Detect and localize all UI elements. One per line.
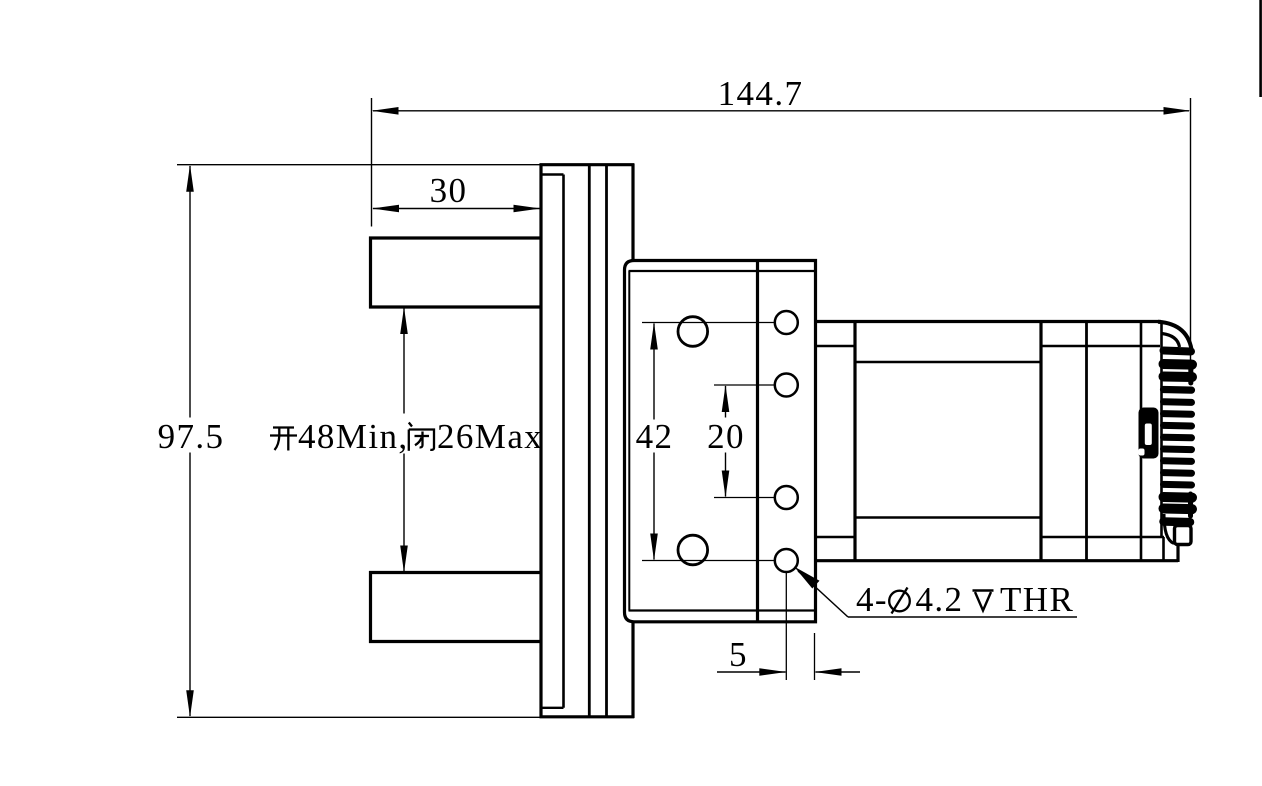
rear corner outer arc: [1158, 322, 1192, 353]
extension line hole center (5 dim): [785, 573, 787, 680]
svg-text:THR: THR: [1000, 580, 1074, 619]
heatsink fin 1: [1164, 351, 1192, 352]
dimension line 20 upper segment: [725, 386, 727, 418]
extension line bottom (for 97.5 dim): [177, 716, 541, 718]
motor body inner bottom line: [855, 516, 1041, 519]
arrowhead top of stroke dim: [400, 307, 408, 334]
fin right joint lower: [1188, 494, 1193, 516]
arrowhead right-pointing of 5 dim: [759, 668, 786, 676]
diameter symbol: [889, 588, 910, 614]
motor rear cap edge: [1085, 322, 1088, 561]
leader arrowhead: [794, 567, 820, 589]
lower jaw left edge: [369, 571, 372, 643]
construction line hole row 3: [714, 497, 775, 499]
bottom step curve: [1164, 514, 1174, 544]
lower jaw top edge: [369, 571, 541, 574]
small hole 2: [775, 374, 798, 397]
bottom step riser: [1176, 545, 1179, 563]
svg-text:42: 42: [636, 417, 674, 456]
dimension line 42 lower segment: [653, 453, 655, 560]
heatsink fin 2: [1164, 359, 1193, 370]
heatsink fin 9: [1164, 446, 1192, 454]
dimension line stroke 48/26 upper segment: [403, 308, 405, 414]
heatsink fin 3: [1164, 372, 1193, 383]
heatsink fin 15: [1164, 517, 1191, 526]
motor top edge: [816, 320, 1162, 323]
encoder housing edge: [1140, 322, 1143, 561]
connector notch: [1139, 449, 1145, 456]
heatsink fin 8: [1164, 434, 1192, 442]
heatsink fin 12: [1164, 481, 1192, 489]
svg-text:20: 20: [707, 417, 745, 456]
encoder housing right edge: [1160, 322, 1163, 538]
svg-text:30: 30: [430, 171, 468, 210]
arrowhead left of 144.7: [372, 107, 399, 115]
arrowhead bottom of 97.5: [186, 690, 194, 717]
rear tab: [1175, 526, 1192, 545]
finger plate notch bottom: [541, 707, 564, 709]
mounting bracket plate (white fill, rounded left corners): [625, 261, 816, 622]
extension line bracket edge (5 dim): [814, 633, 816, 680]
gripper body bottom edge: [540, 715, 635, 718]
heatsink fin 13: [1164, 492, 1193, 503]
svg-text:4.2: 4.2: [916, 580, 964, 619]
small hole 3: [775, 486, 798, 509]
svg-text:97.5: 97.5: [158, 417, 225, 456]
big hole lower: [678, 535, 708, 565]
motor hub bottom line: [816, 536, 856, 539]
gripper housing line 1: [588, 165, 591, 717]
heatsink fin 4: [1164, 386, 1192, 394]
lower jaw bottom edge: [369, 640, 541, 643]
arrowhead left-pointing of 5 dim: [815, 668, 842, 676]
gripper body top edge: [540, 163, 635, 166]
arrowhead top of 42: [650, 323, 658, 350]
small hole 4: [775, 549, 798, 572]
extension line top (for 97.5 dim): [177, 164, 541, 166]
svg-text:48Min,: 48Min,: [298, 417, 409, 456]
dimension line 97.5 lower segment: [189, 453, 191, 717]
construction line hole row 2: [714, 384, 775, 386]
bracket inner top line: [629, 270, 816, 272]
gripper housing right edge: [631, 164, 634, 719]
small hole 1: [775, 311, 798, 334]
motor body inner top line: [855, 361, 1041, 364]
finger plate notch top: [541, 173, 564, 175]
bottom step vertical: [1162, 537, 1165, 561]
dimension line 144.7: [373, 110, 1189, 112]
svg-text:144.7: 144.7: [718, 74, 804, 113]
hanzi KAI (open): [270, 428, 297, 451]
heatsink fin 5: [1164, 398, 1192, 406]
construction line hole row 4: [642, 560, 775, 562]
rear corner inner arc: [1162, 334, 1180, 348]
gripper housing line 3: [605, 165, 608, 717]
arrowhead left of 30: [372, 205, 399, 213]
motor rear cap line top: [1041, 345, 1160, 348]
finger plate right edge: [562, 175, 565, 708]
dimension line 30: [373, 208, 540, 210]
upper jaw left edge: [369, 237, 372, 309]
heatsink fin 6: [1164, 410, 1192, 418]
connector slot: [1145, 424, 1152, 446]
dimension line 20 lower segment: [725, 453, 727, 497]
motor bottom edge: [816, 559, 1179, 562]
finger plate left edge: [539, 164, 542, 719]
svg-text:5: 5: [729, 635, 748, 674]
arrowhead right of 30: [514, 205, 541, 213]
bracket inner left line: [628, 271, 630, 611]
svg-text:4-: 4-: [856, 580, 888, 619]
upper jaw bottom edge: [369, 305, 541, 308]
hanzi BI (closed): [409, 423, 434, 451]
arrowhead right of 144.7: [1164, 107, 1191, 115]
heatsink fin 7: [1164, 422, 1192, 430]
leader underline: [848, 616, 1077, 618]
heatsink fin 14: [1164, 504, 1193, 515]
motor body left edge: [853, 322, 856, 561]
leader line to hole: [798, 571, 848, 617]
arrowhead bottom of 20: [722, 471, 730, 498]
extension line left (for 144.7 and 30 dims): [371, 98, 373, 227]
dimension line 5 left segment: [717, 671, 786, 673]
arrowhead bottom of stroke dim: [400, 546, 408, 573]
arrowhead top of 97.5: [186, 165, 194, 192]
dimension line stroke 48/26 lower segment: [403, 454, 405, 572]
construction line hole row 1: [642, 322, 775, 324]
arrowhead top of 20: [722, 385, 730, 412]
motor body right edge: [1039, 322, 1042, 561]
svg-text:26Max: 26Max: [437, 417, 543, 456]
dimension line 5 right segment: [816, 671, 861, 673]
heatsink fin 11: [1164, 469, 1192, 477]
arrowhead bottom of 42: [650, 534, 658, 561]
dimension line 97.5 upper segment: [189, 166, 191, 418]
upper jaw top edge: [369, 236, 541, 239]
motor rear cap line bottom: [1041, 536, 1164, 539]
drawing frame fragment top right: [1259, 0, 1262, 97]
bracket inner bottom line: [629, 609, 816, 611]
motor hub top line: [816, 345, 856, 348]
connector body: [1139, 408, 1159, 459]
fin right joint upper: [1188, 362, 1193, 383]
extension line right (for 144.7 dim): [1190, 98, 1192, 360]
dimension line 42 upper segment: [653, 324, 655, 420]
depth symbol: [973, 591, 994, 611]
heatsink fin 10: [1164, 457, 1192, 465]
big hole upper: [678, 317, 708, 347]
bracket divider line: [756, 261, 759, 622]
